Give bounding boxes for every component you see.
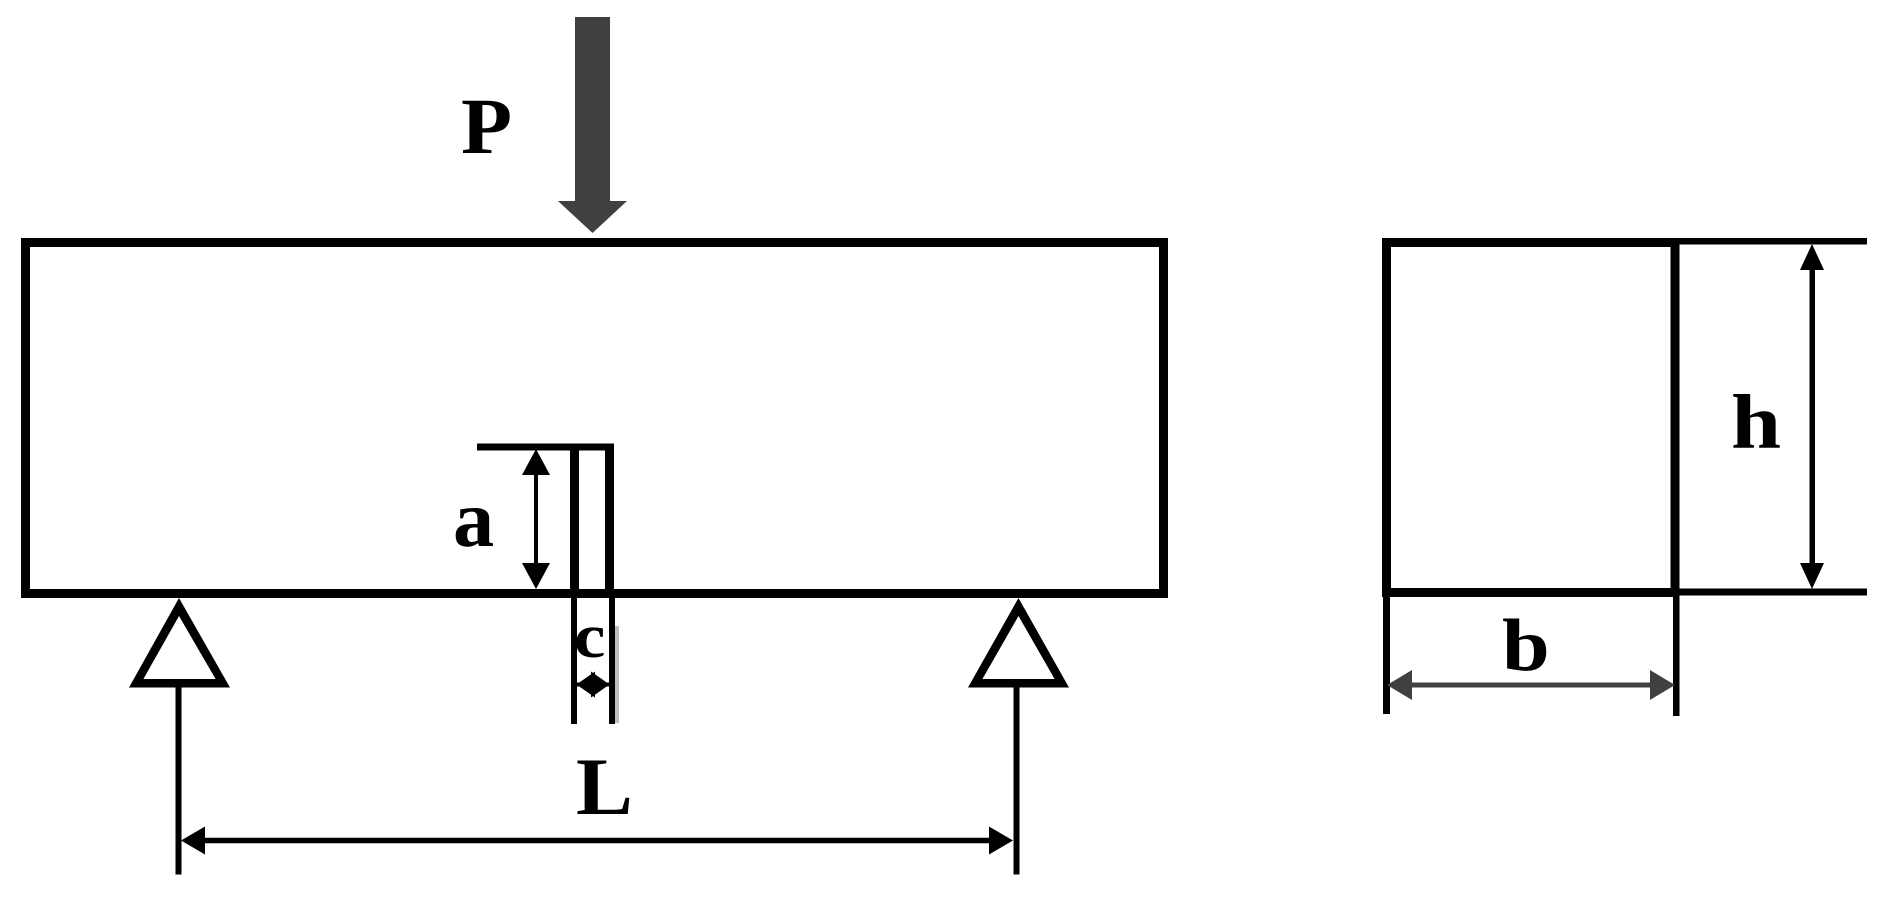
span dimension arrow L — [181, 827, 1013, 855]
dimension arrow h — [1800, 244, 1824, 589]
notch right wall — [605, 444, 614, 594]
dimension arrow a — [522, 449, 550, 589]
notch reference line — [477, 444, 614, 451]
load arrow P — [558, 17, 627, 233]
dimension arrow c — [576, 672, 610, 698]
svg-text:P: P — [461, 82, 512, 171]
bottom extension line — [1680, 589, 1868, 596]
left reaction line — [176, 688, 182, 875]
cross-section rectangle — [1387, 243, 1676, 593]
left lower extension line — [1383, 597, 1390, 714]
svg-text:L: L — [576, 741, 633, 832]
svg-text:h: h — [1731, 380, 1781, 465]
svg-text:b: b — [1502, 605, 1550, 686]
svg-text:a: a — [453, 475, 494, 564]
right support triangle — [968, 598, 1069, 688]
notch left wall — [570, 444, 579, 594]
right lower extension line — [1673, 597, 1680, 716]
right reaction line — [1014, 688, 1020, 875]
dimension arrow b — [1387, 670, 1675, 700]
top extension line — [1680, 238, 1868, 245]
notch extension line right — [609, 598, 615, 724]
svg-text:c: c — [574, 603, 605, 671]
beam rectangle — [26, 243, 1164, 594]
left support triangle — [129, 598, 230, 688]
notch extension line left — [571, 598, 577, 724]
